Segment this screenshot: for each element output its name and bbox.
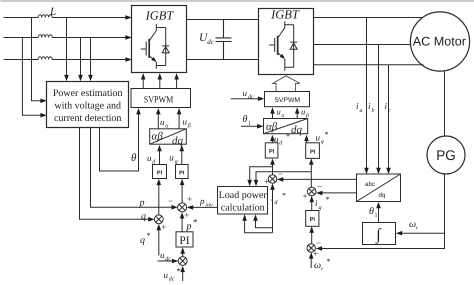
svg-text:β: β xyxy=(305,113,309,119)
svg-text:*: * xyxy=(286,132,290,141)
wire udc input xyxy=(158,259,179,264)
encoder PG1 xyxy=(427,136,465,174)
svg-text:q: q xyxy=(175,159,178,165)
svg-text:u: u xyxy=(169,153,174,163)
svg-text:+: + xyxy=(313,249,318,259)
svg-text:θ: θ xyxy=(243,114,248,125)
svg-text:u: u xyxy=(183,117,188,127)
wire voltage tap phase B to estimator left xyxy=(22,38,46,118)
block ab-dq transform left xyxy=(150,129,187,147)
inductor L phase A xyxy=(38,15,52,18)
svg-text:1: 1 xyxy=(375,213,378,219)
wire PI to uq xyxy=(180,145,185,165)
wire current sensor ia xyxy=(364,18,369,175)
wire wr to integrator xyxy=(396,231,445,236)
svg-text:u: u xyxy=(316,133,321,143)
transistor IGBT symbol Q2 xyxy=(269,21,294,70)
label wr-star xyxy=(314,257,331,273)
wire SVPWM to IGBT gate 2 xyxy=(158,73,163,89)
summing junction udc xyxy=(178,257,187,266)
svg-text:α: α xyxy=(282,113,285,119)
svg-text:p: p xyxy=(199,196,205,206)
wire uq-star tap to load calc xyxy=(254,172,312,187)
svg-text:d: d xyxy=(279,140,283,147)
block IGBT inverter U4 xyxy=(259,7,314,74)
label pinv xyxy=(199,196,213,209)
block load power calculation xyxy=(218,187,268,215)
svg-text:c: c xyxy=(388,108,391,114)
PI controller d-axis grid xyxy=(153,165,167,179)
diode D2 xyxy=(290,25,297,68)
svg-text:PI: PI xyxy=(179,170,185,176)
label ic xyxy=(385,101,392,114)
AC motor M1 xyxy=(410,12,469,71)
svg-text:−: − xyxy=(316,238,321,248)
label p-star xyxy=(186,217,199,232)
label wr xyxy=(409,219,419,232)
svg-text:*: * xyxy=(327,257,331,266)
label iq-star xyxy=(315,195,330,211)
wire u-beta to SVPWM xyxy=(177,108,182,129)
svg-text:Load power: Load power xyxy=(219,190,268,201)
wire q from estimator xyxy=(80,128,155,222)
wire u-beta right to SVPWM xyxy=(295,107,300,119)
label udc xyxy=(160,250,171,263)
capacitor C1 xyxy=(216,20,232,60)
svg-text:p: p xyxy=(139,197,145,208)
wire voltage tap phase A to estimator left xyxy=(32,18,47,104)
svg-text:*: * xyxy=(282,191,286,200)
svg-text:−: − xyxy=(317,182,322,192)
svg-text:*: * xyxy=(325,130,329,139)
svg-text:b: b xyxy=(372,107,375,114)
wire p-star from PI xyxy=(180,212,185,232)
label Udc bus xyxy=(199,32,215,46)
wire id sum to PI xyxy=(270,158,275,174)
wire phase C input xyxy=(4,57,132,62)
summing junction id xyxy=(268,175,277,184)
label udc input xyxy=(243,88,255,101)
svg-text:current detection: current detection xyxy=(54,113,121,124)
label udc-star xyxy=(164,266,182,283)
svg-text:q: q xyxy=(140,235,145,246)
PI controller DC link xyxy=(176,232,193,247)
svg-text:L: L xyxy=(49,6,56,18)
label u-beta xyxy=(183,117,191,130)
svg-text:+: + xyxy=(161,222,166,232)
svg-text:abc: abc xyxy=(365,181,375,188)
svg-text:SVPWM: SVPWM xyxy=(274,97,300,104)
label u-alpha xyxy=(160,117,169,130)
block SVPWM right U5 xyxy=(265,92,310,107)
wire theta from estimator to SVPWM xyxy=(100,108,141,171)
summing junction q xyxy=(154,215,163,224)
block IGBT rectifier U1 xyxy=(132,6,187,73)
wire phase U inverter to motor xyxy=(313,17,422,19)
svg-text:u: u xyxy=(243,88,248,98)
svg-text:with voltage and: with voltage and xyxy=(54,101,121,112)
svg-text:β: β xyxy=(187,122,191,129)
wire dc sum to PI xyxy=(180,247,185,256)
wire phase V inverter to motor xyxy=(313,44,410,46)
summing junction speed xyxy=(307,244,315,252)
summing junction iq xyxy=(307,187,316,196)
svg-text:∫: ∫ xyxy=(375,226,382,244)
svg-text:PI: PI xyxy=(157,170,163,176)
wire iq-star from speed PI xyxy=(309,196,314,211)
wire phase W inverter to motor xyxy=(313,64,423,66)
PI controller id xyxy=(265,143,278,158)
label u-beta right xyxy=(301,106,309,119)
svg-text:αβ: αβ xyxy=(266,121,278,133)
svg-text:PG: PG xyxy=(436,147,456,163)
svg-text:+: + xyxy=(187,194,192,204)
svg-text:dq: dq xyxy=(379,192,386,199)
block SVPWM left U2 xyxy=(131,89,191,108)
wire current tap 3 to estimator top xyxy=(88,38,93,82)
svg-text:+: + xyxy=(184,210,189,220)
label ia xyxy=(356,101,363,114)
wire udc to SVPWM right xyxy=(231,96,264,101)
label ud-star xyxy=(274,132,290,147)
label uq-star xyxy=(316,130,329,145)
svg-text:*: * xyxy=(147,231,151,240)
svg-text:q: q xyxy=(141,211,146,222)
wire id-star tap to load calc xyxy=(253,214,272,228)
svg-text:θ: θ xyxy=(369,206,374,217)
wire PI to ud xyxy=(157,145,162,165)
wire pinv to p sum xyxy=(187,205,218,210)
wire iq-star tap to load calc xyxy=(242,214,272,233)
svg-text:+: + xyxy=(264,177,269,187)
svg-text:Power estimation: Power estimation xyxy=(53,88,123,99)
svg-text:calculation: calculation xyxy=(221,202,265,213)
wire p sum to PI xyxy=(180,179,185,203)
svg-text:PI: PI xyxy=(269,149,275,155)
label theta1 left xyxy=(243,114,252,127)
wire current tap 1 to estimator top xyxy=(64,18,69,82)
block power estimation U3 xyxy=(47,82,129,128)
wire DC bus positive xyxy=(187,19,259,21)
svg-text:αβ: αβ xyxy=(152,131,164,143)
hollow arrow SVPWM to inverter xyxy=(273,76,300,92)
wire udc-star input xyxy=(180,266,185,281)
wire wr-star input xyxy=(309,252,314,268)
svg-text:IGBT: IGBT xyxy=(270,7,300,21)
wire SVPWM to IGBT gate 1 xyxy=(141,73,146,89)
svg-text:q: q xyxy=(321,139,324,145)
wire u-alpha to SVPWM xyxy=(156,108,161,129)
svg-text:u: u xyxy=(160,250,165,260)
wire id from abc-dq xyxy=(277,177,357,182)
wire iq from abc-dq xyxy=(316,191,357,196)
wire u-alpha right to SVPWM xyxy=(270,107,275,119)
transistor IGBT symbol Q1 xyxy=(141,24,166,69)
label ud xyxy=(147,153,156,166)
svg-text:u: u xyxy=(277,106,281,116)
wire current sensor ib xyxy=(376,45,381,175)
wire q sum to PI xyxy=(157,179,162,215)
wire uq-star PI to ab-dq xyxy=(304,135,309,143)
wire iq sum to PI xyxy=(309,158,314,187)
label q-star xyxy=(140,231,151,246)
block abc-dq transform xyxy=(357,174,401,202)
svg-text:u: u xyxy=(147,153,152,163)
inductor L phase C xyxy=(38,57,52,60)
wire q-star input xyxy=(157,224,162,256)
wire phase B input xyxy=(4,35,132,40)
svg-text:dc: dc xyxy=(165,256,171,263)
PI controller q-axis grid xyxy=(176,165,189,179)
svg-text:u: u xyxy=(301,106,305,116)
svg-text:*: * xyxy=(177,266,182,276)
border top xyxy=(1,0,474,2)
wire phase A input xyxy=(4,15,132,20)
svg-text:dc: dc xyxy=(207,38,215,46)
svg-text:PI: PI xyxy=(310,217,316,223)
svg-text:dq: dq xyxy=(291,124,303,136)
svg-text:AC Motor: AC Motor xyxy=(413,35,466,49)
svg-text:θ: θ xyxy=(131,152,137,164)
svg-text:−: − xyxy=(168,196,173,206)
wire current sensor ic xyxy=(386,65,391,174)
label u-alpha right xyxy=(277,106,285,119)
label ib xyxy=(368,101,375,114)
svg-text:+: + xyxy=(303,191,308,201)
wire DC bus negative xyxy=(187,59,259,61)
svg-text:inv: inv xyxy=(205,203,213,209)
wire ud-star PI to ab-dq xyxy=(270,135,275,143)
svg-text:r: r xyxy=(416,226,419,232)
svg-text:*: * xyxy=(326,195,330,204)
wire PG to speed sum xyxy=(316,174,445,251)
svg-text:PI: PI xyxy=(179,235,189,247)
wire id-star input xyxy=(270,183,275,232)
label uq xyxy=(169,153,177,166)
integrator block xyxy=(363,223,396,245)
block ab-dq transform right xyxy=(264,119,308,137)
wire ud-star tap to load calc xyxy=(247,167,272,187)
diode D1 xyxy=(162,28,169,66)
svg-text:r: r xyxy=(321,267,324,273)
label id-star xyxy=(271,191,286,206)
wire speed sum to PI xyxy=(309,226,314,243)
svg-text:SVPWM: SVPWM xyxy=(144,95,174,105)
svg-text:p: p xyxy=(186,221,192,232)
svg-text:u: u xyxy=(160,117,165,127)
svg-text:IGBT: IGBT xyxy=(145,9,175,23)
inductor L phase B xyxy=(38,35,52,38)
svg-text:u: u xyxy=(164,270,169,280)
svg-text:PI: PI xyxy=(310,149,316,155)
PI controller speed xyxy=(306,211,319,227)
wire motor shaft to PG xyxy=(444,71,446,137)
svg-text:dc: dc xyxy=(169,276,175,283)
summing junction p xyxy=(178,203,187,212)
wire SVPWM to IGBT gate 3 xyxy=(174,73,179,89)
wire p from estimator xyxy=(91,128,178,210)
svg-text:d: d xyxy=(275,199,279,206)
wire theta1 to ab-dq right xyxy=(241,124,264,129)
svg-text:dc: dc xyxy=(248,94,254,101)
svg-text:a: a xyxy=(360,108,363,114)
label theta1 right xyxy=(369,206,378,219)
PI controller iq xyxy=(306,143,320,159)
wire current tap 2 to estimator top xyxy=(78,38,83,82)
svg-text:*: * xyxy=(193,217,198,227)
wire theta1 integrator to abc-dq xyxy=(376,202,381,223)
